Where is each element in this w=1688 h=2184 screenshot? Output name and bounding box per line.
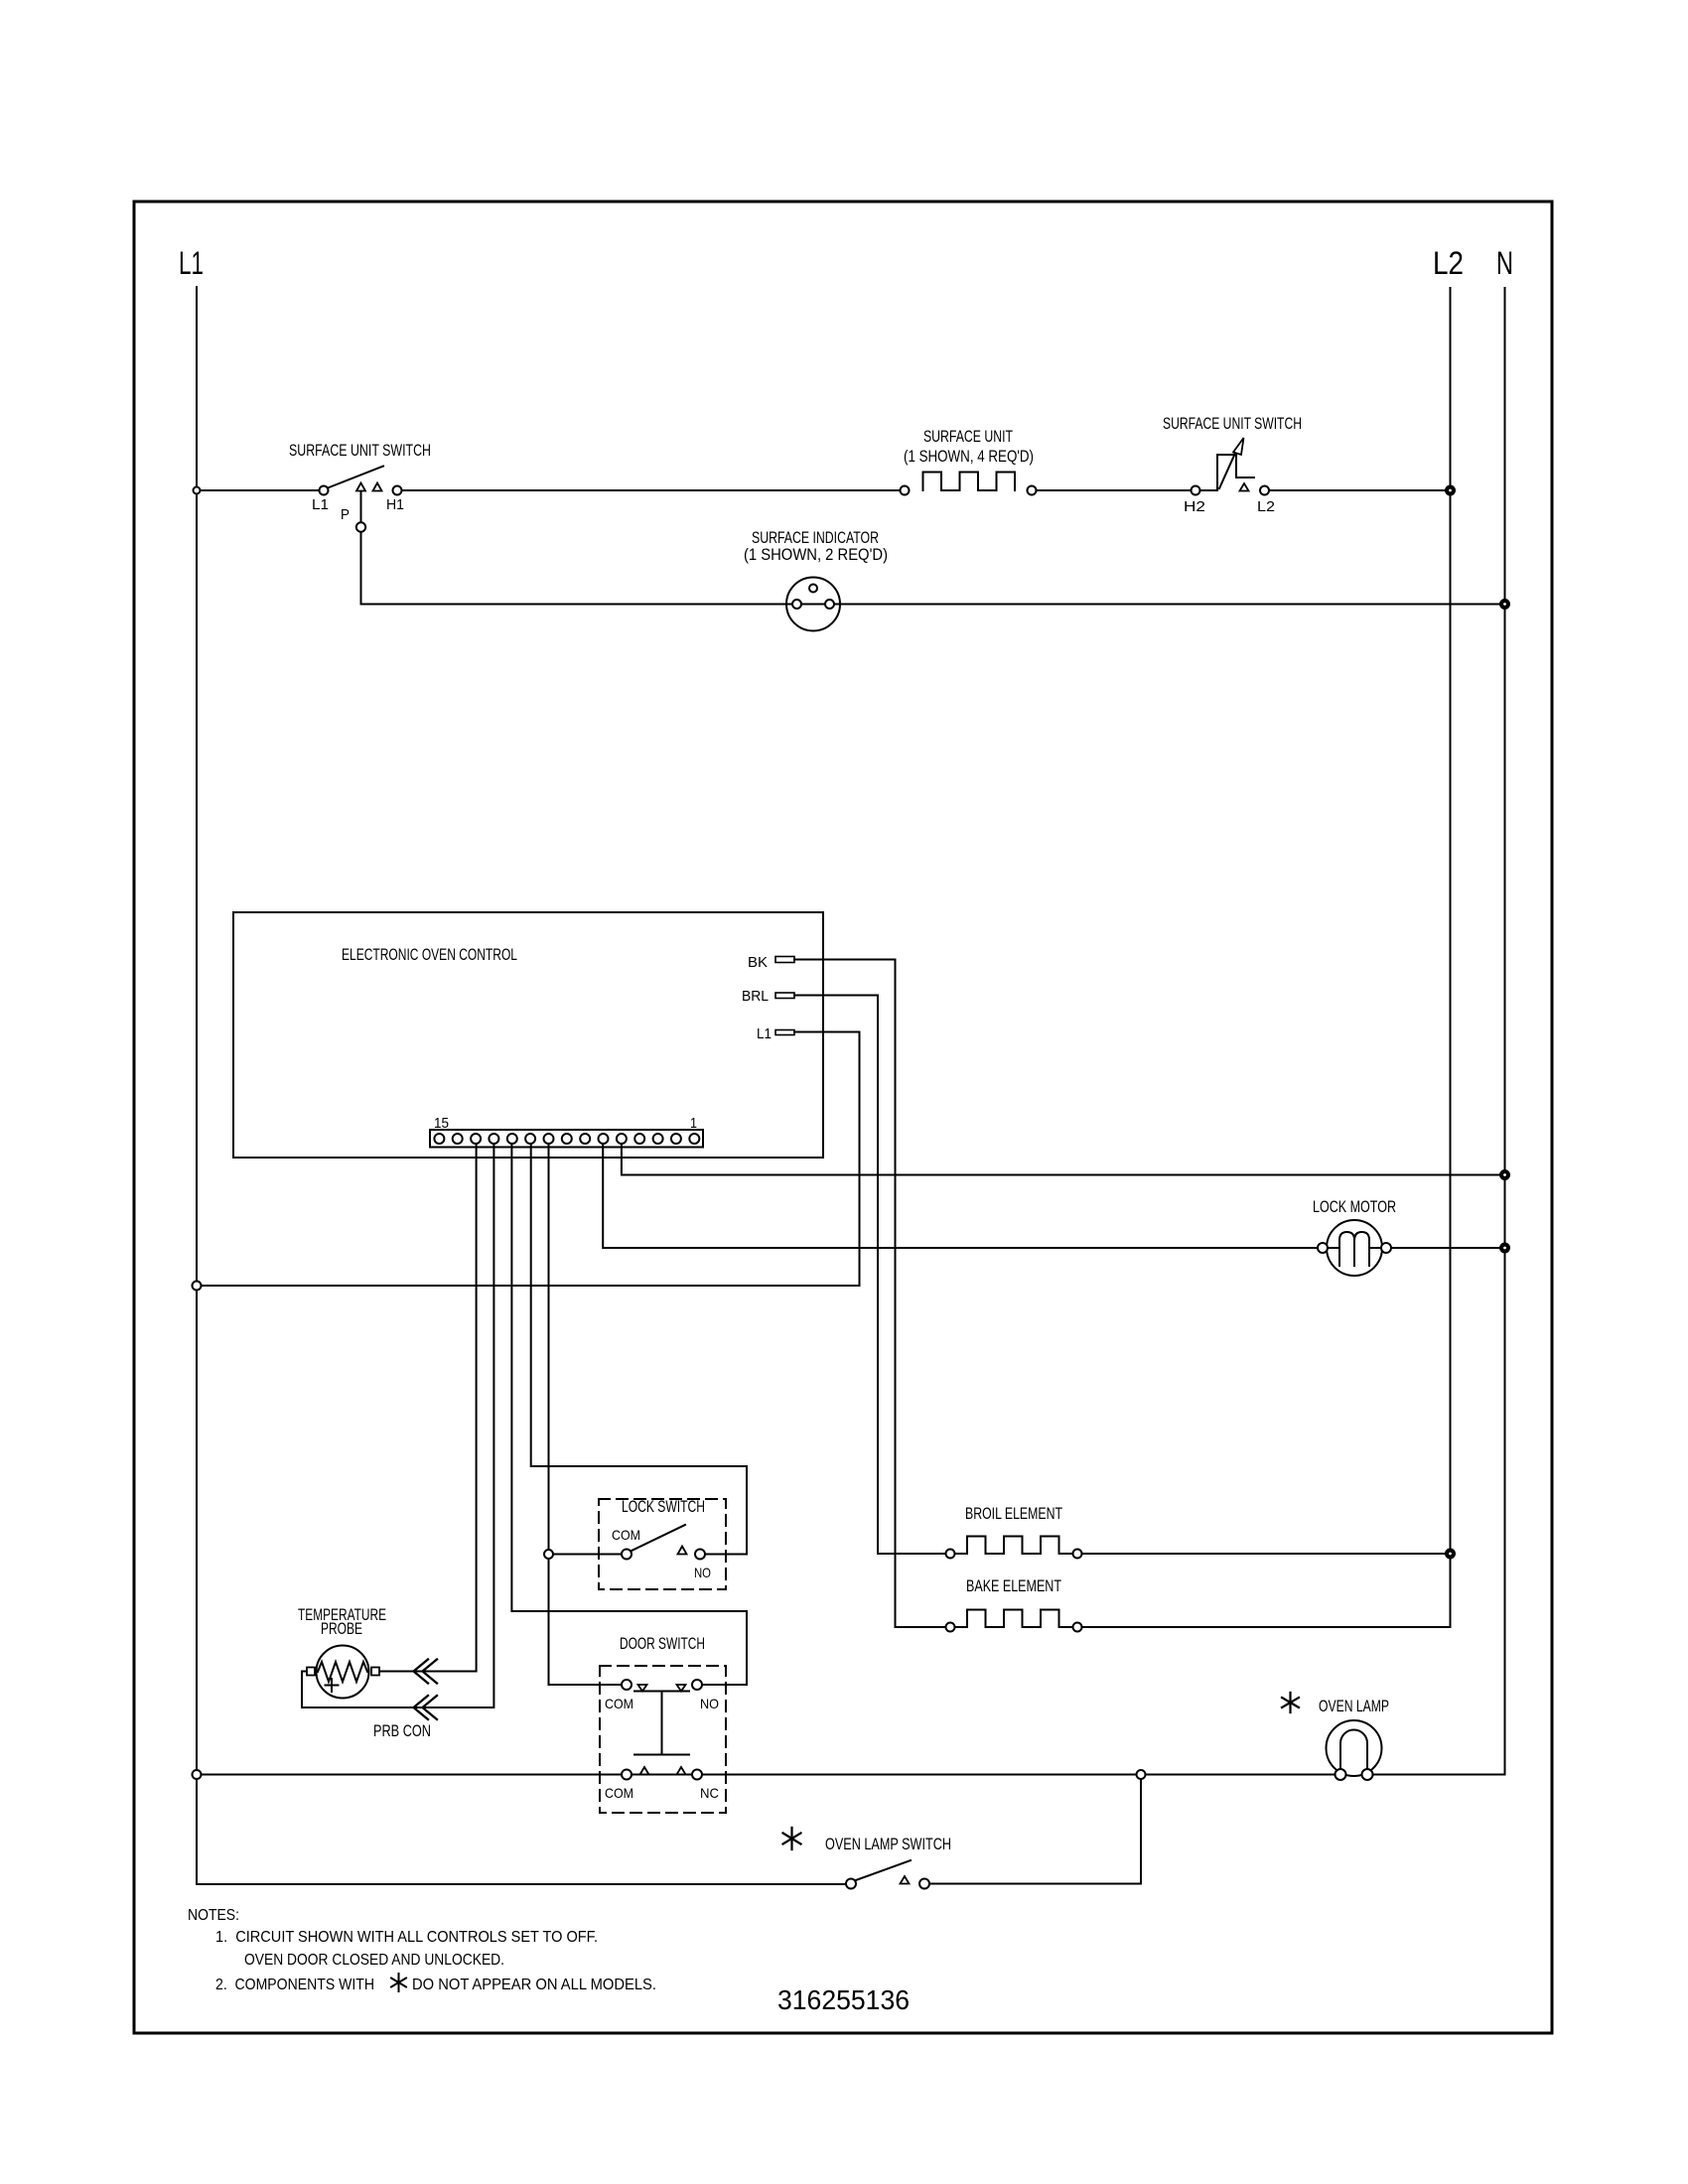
- svg-text:2. COMPONENTS WITH: 2. COMPONENTS WITH: [215, 1977, 374, 1993]
- node junction L1 bus x EOC L1 wire: [193, 1282, 202, 1291]
- terminal door switch COM lower: [622, 1770, 632, 1780]
- terminal surface unit left: [901, 486, 910, 495]
- wire pin10 to lock switch NO: [531, 1140, 747, 1555]
- node N rail label: [1496, 245, 1513, 281]
- terminal pad BRL: [775, 993, 794, 999]
- terminal lock switch COM: [622, 1550, 632, 1560]
- switch right blade: [1219, 449, 1237, 488]
- probe plus sign: [326, 1679, 339, 1692]
- svg-text:DOOR SWITCH: DOOR SWITCH: [620, 1635, 705, 1653]
- terminal lock motor right: [1381, 1243, 1391, 1253]
- switch lock switch dashed box: [599, 1499, 726, 1589]
- svg-text:PROBE: PROBE: [321, 1620, 362, 1638]
- terminal door switch COM upper: [622, 1680, 632, 1690]
- svg-text:SURFACE INDICATOR: SURFACE INDICATOR: [752, 529, 879, 547]
- svg-text:P: P: [341, 506, 350, 523]
- motor lock motor: [1327, 1220, 1382, 1276]
- terminal H2: [1192, 486, 1200, 495]
- svg-text:OVEN LAMP SWITCH: OVEN LAMP SWITCH: [825, 1836, 951, 1853]
- svg-text:H2: H2: [1184, 498, 1205, 515]
- switch oven lamp switch blade: [856, 1860, 911, 1880]
- connector chevron lower: [414, 1696, 429, 1719]
- wire lock switch COM branch: [549, 1554, 623, 1556]
- svg-text:NO: NO: [700, 1696, 719, 1711]
- switch lock switch contact triangle: [678, 1547, 687, 1555]
- connector chevron upper: [414, 1660, 429, 1684]
- connector strip 15 pin: [430, 1130, 703, 1148]
- node L1 rail label: [179, 245, 204, 281]
- svg-text:1. CIRCUIT SHOWN WITH ALL CON: 1. CIRCUIT SHOWN WITH ALL CONTROLS SET T…: [215, 1929, 598, 1946]
- svg-text:COM: COM: [605, 1785, 633, 1801]
- svg-text:LOCK MOTOR: LOCK MOTOR: [1313, 1198, 1396, 1216]
- lamp surface indicator: [786, 578, 840, 631]
- border frame: [134, 202, 1552, 2033]
- switch oven lamp switch contact triangle: [901, 1876, 910, 1884]
- svg-text:OVEN DOOR CLOSED AND UNLOCKED.: OVEN DOOR CLOSED AND UNLOCKED.: [244, 1952, 504, 1969]
- node junction L1 x top row: [194, 487, 201, 494]
- svg-text:L2: L2: [1433, 245, 1464, 281]
- node L2 rail label: [1433, 245, 1464, 281]
- terminal L2: [1260, 486, 1269, 495]
- wire bottom row L1 to N: [197, 1774, 1505, 1776]
- node junction L1 x bottom row: [193, 1770, 202, 1779]
- svg-text:H1: H1: [386, 496, 404, 513]
- svg-text:N: N: [1496, 245, 1513, 281]
- resistor temperature probe: [317, 1646, 369, 1699]
- svg-text:COM: COM: [612, 1527, 640, 1543]
- terminal lock switch NO: [695, 1550, 705, 1560]
- terminal door switch NO: [692, 1680, 702, 1690]
- wire top row L1 to switch: [197, 489, 319, 491]
- svg-text:SURFACE UNIT SWITCH: SURFACE UNIT SWITCH: [289, 442, 431, 460]
- wire indicator row: [361, 604, 1505, 606]
- node junction N x indicator row: [1500, 600, 1509, 609]
- node junction L2 x broil wire: [1446, 1550, 1455, 1559]
- terminal pad L1: [775, 1030, 794, 1035]
- svg-text:NOTES:: NOTES:: [188, 1907, 239, 1924]
- svg-text:(1 SHOWN, 4 REQ'D): (1 SHOWN, 4 REQ'D): [904, 448, 1034, 466]
- wire pin9 to door switch COM: [549, 1140, 623, 1685]
- wire pin12 to temperature probe left: [302, 1140, 493, 1707]
- terminal probe right: [371, 1668, 379, 1676]
- switch door switch upper contact triangles: [638, 1685, 647, 1692]
- svg-text:OVEN LAMP: OVEN LAMP: [1319, 1698, 1389, 1715]
- svg-text:BROIL ELEMENT: BROIL ELEMENT: [965, 1505, 1062, 1523]
- svg-text:PRB CON: PRB CON: [373, 1722, 431, 1740]
- svg-text:COM: COM: [605, 1696, 633, 1711]
- svg-text:L2: L2: [1257, 498, 1275, 515]
- wire lamp switch to bottom row: [929, 1779, 1141, 1884]
- svg-text:316255136: 316255136: [777, 1984, 910, 2015]
- svg-text:BK: BK: [748, 954, 768, 971]
- wire L2 bus vertical: [1450, 288, 1452, 1627]
- svg-text:L1: L1: [179, 245, 204, 281]
- svg-text:L1: L1: [312, 496, 329, 513]
- node junction L2 x top row: [1446, 486, 1455, 495]
- node junction bottom row x lamp switch return: [1137, 1770, 1146, 1779]
- lamp oven lamp: [1327, 1720, 1382, 1776]
- switch right arrowhead: [1233, 438, 1244, 455]
- wire pin11 to door switch NO: [511, 1140, 747, 1685]
- switch door switch actuator bar: [634, 1691, 689, 1693]
- resistor bake element: [955, 1610, 1073, 1628]
- wire broil element to L2 bus: [1082, 1553, 1451, 1555]
- wire top row L2 terminal to L2 bus: [1270, 489, 1451, 491]
- asterisk note 2: [391, 1974, 406, 1991]
- wire L1 bus vertical: [196, 287, 198, 1884]
- svg-text:BAKE ELEMENT: BAKE ELEMENT: [966, 1577, 1061, 1595]
- terminal surface unit right: [1028, 486, 1037, 495]
- svg-text:(1 SHOWN, 2 REQ'D): (1 SHOWN, 2 REQ'D): [744, 546, 888, 564]
- switch right surface unit switch (thermal): [1200, 489, 1217, 491]
- svg-text:ELECTRONIC OVEN CONTROL: ELECTRONIC OVEN CONTROL: [342, 946, 517, 964]
- wire top row H1 to surface unit: [402, 489, 900, 491]
- svg-text:LOCK SWITCH: LOCK SWITCH: [622, 1498, 705, 1516]
- terminal lock motor left: [1318, 1243, 1328, 1253]
- node junction N x lock motor wire: [1500, 1244, 1509, 1253]
- terminal oven lamp left: [1336, 1769, 1346, 1780]
- asterisk oven lamp switch: [783, 1828, 801, 1849]
- terminal oven lamp right: [1362, 1769, 1373, 1780]
- switch door switch dashed box: [600, 1666, 726, 1813]
- wire lamp switch row: [197, 1883, 846, 1885]
- node junction pin9 x lock COM: [544, 1550, 553, 1559]
- svg-text:NC: NC: [700, 1785, 719, 1801]
- switch lock switch blade: [632, 1525, 685, 1551]
- node junction N x pin5 wire: [1500, 1170, 1509, 1179]
- wire P branch down: [360, 491, 362, 522]
- wire bake element to L2 bus: [1082, 1626, 1451, 1628]
- svg-text:1: 1: [690, 1115, 697, 1132]
- svg-text:SURFACE UNIT SWITCH: SURFACE UNIT SWITCH: [1163, 415, 1302, 433]
- terminal oven lamp switch left: [846, 1879, 856, 1889]
- wire N bus vertical: [1504, 288, 1506, 1775]
- wire top row surface unit to H2: [1037, 489, 1192, 491]
- terminal door switch NC: [692, 1770, 702, 1780]
- resistor broil element: [955, 1537, 1073, 1555]
- terminal probe left: [307, 1668, 315, 1676]
- op-amp U1 electronic oven control box: [233, 912, 823, 1158]
- wire pin5 to N bus: [622, 1140, 1505, 1175]
- asterisk oven lamp: [1282, 1693, 1299, 1712]
- svg-text:NO: NO: [694, 1565, 711, 1580]
- switch left surface unit switch blade: [328, 467, 383, 488]
- wire BRL to broil element: [794, 996, 946, 1555]
- switch left surface unit switch contact triangle P: [356, 483, 365, 491]
- pin circles of connector strip: [434, 1134, 699, 1144]
- svg-text:15: 15: [434, 1115, 449, 1132]
- wire lock motor to N bus: [1391, 1247, 1505, 1249]
- switch left surface unit switch terminal H1: [393, 486, 402, 495]
- switch left surface unit switch contact triangle H1: [373, 483, 382, 491]
- wire BK to bake element: [794, 960, 946, 1628]
- switch left surface unit switch terminal L1: [320, 486, 329, 495]
- wire L1 terminal to L1 bus: [201, 1032, 860, 1287]
- wire pin13 to temperature probe right: [380, 1140, 477, 1672]
- svg-text:BRL: BRL: [742, 988, 769, 1005]
- switch door switch lower contact triangles: [640, 1767, 649, 1775]
- wire pin6 to lock motor: [603, 1140, 1318, 1248]
- node P branch open circle: [356, 522, 365, 531]
- terminal pad BK: [775, 957, 794, 963]
- switch right contact triangle: [1240, 483, 1249, 491]
- terminal oven lamp switch right: [919, 1879, 929, 1889]
- svg-text:L1: L1: [757, 1025, 772, 1042]
- resistor surface unit: [923, 473, 1016, 491]
- svg-text:SURFACE UNIT: SURFACE UNIT: [923, 428, 1013, 446]
- svg-text:DO NOT APPEAR ON ALL MODELS.: DO NOT APPEAR ON ALL MODELS.: [412, 1977, 656, 1993]
